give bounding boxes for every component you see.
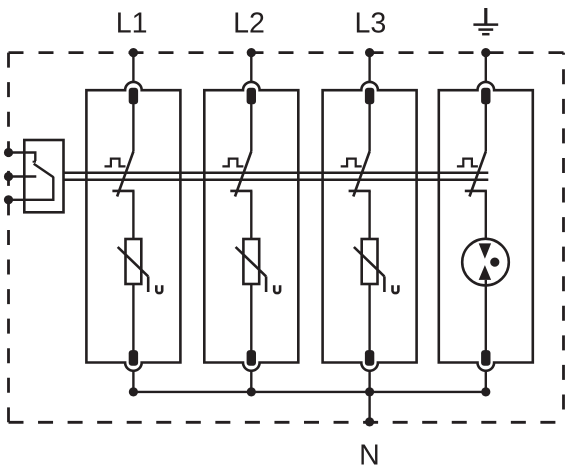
label U of RV2: [274, 285, 280, 293]
wire arc to N junction F2: [250, 371, 252, 392]
wire arc to N junction F3: [368, 371, 370, 392]
wire pill to blade F2: [250, 100, 252, 152]
junction node F1-N: [129, 387, 138, 396]
wire switch to spark gap F4: [485, 191, 487, 244]
node L2: [247, 48, 256, 57]
terminal pill bottom module F3: [365, 350, 374, 366]
N bus wire: [133, 391, 485, 393]
gas indicator dot: [490, 258, 499, 267]
wire pill to blade F3: [368, 100, 370, 152]
contact bar F3: [349, 190, 371, 193]
module F4 box: [439, 82, 533, 371]
spark gap bottom electrode: [479, 265, 491, 280]
terminal pill top module F4: [481, 88, 490, 105]
node L1: [129, 48, 138, 57]
terminal pill bottom module F4: [481, 350, 490, 366]
thermal trip symbol F3: [341, 159, 362, 167]
terminal pill bottom module F1: [129, 350, 138, 366]
remote contact NO wire: [9, 177, 54, 200]
wire pill to blade F4: [485, 100, 487, 152]
remote contact common wire: [9, 175, 37, 177]
varistor RV1: [118, 239, 149, 292]
spark gap top electrode: [479, 243, 491, 258]
terminal pill bottom module F2: [247, 350, 256, 366]
disconnector blade F3: [353, 152, 369, 197]
module F2 box: [204, 82, 298, 371]
wire N drop: [368, 392, 370, 422]
junction node F3-N: [365, 387, 374, 396]
contact bar F2: [230, 190, 252, 193]
wire arc to N junction F1: [132, 371, 134, 392]
varistor RV2: [236, 239, 267, 292]
thermal trip symbol F1: [105, 159, 126, 167]
disconnector blade F1: [117, 152, 133, 197]
wire switch to varistor F1: [132, 191, 134, 240]
module F3 box: [323, 82, 417, 371]
wire spark gap to bottom terminal F4: [485, 280, 487, 365]
wire varistor to bottom terminal F3: [368, 284, 370, 365]
node PE: [481, 48, 490, 57]
varistor RV3: [354, 239, 385, 292]
node remote bottom: [4, 195, 13, 204]
wire L1 down: [132, 53, 134, 83]
remote contact blade: [34, 164, 54, 178]
label U of RV1: [156, 285, 162, 293]
svg-text:L1: L1: [116, 8, 148, 40]
spark gap GDT circle: [462, 239, 509, 286]
wire switch to varistor F2: [250, 191, 252, 240]
contact bar F4: [465, 190, 487, 193]
disconnector blade F2: [235, 152, 251, 197]
mechanical linkage lower line: [64, 179, 489, 182]
wire varistor to bottom terminal F2: [250, 284, 252, 365]
terminal pill top module F1: [129, 88, 138, 105]
node remote middle: [4, 172, 13, 181]
disconnector blade F4: [470, 152, 486, 197]
junction node F2-N: [247, 387, 256, 396]
wire PE down: [485, 53, 487, 83]
terminal pill top module F3: [365, 88, 374, 105]
enclosure dashed border: [9, 53, 564, 423]
wire pill to blade F1: [132, 100, 134, 152]
module F1 box: [86, 82, 180, 371]
label U of RV3: [393, 285, 399, 293]
node remote top: [4, 148, 13, 157]
remote signal contact box: [24, 140, 63, 212]
remote contact fixed tip: [33, 161, 36, 163]
svg-text:L3: L3: [354, 8, 386, 40]
mechanical linkage upper line: [64, 171, 489, 174]
wire L3 down: [368, 53, 370, 83]
terminal pill top module F2: [247, 88, 256, 105]
remote contact NC wire: [9, 153, 36, 162]
wire varistor to bottom terminal F1: [132, 284, 134, 365]
node L3: [365, 48, 374, 57]
wire L2 down: [250, 53, 252, 83]
svg-text:L2: L2: [233, 8, 265, 40]
svg-text:N: N: [359, 439, 380, 470]
junction node F4-N: [481, 387, 490, 396]
wire switch to varistor F3: [368, 191, 370, 240]
contact bar F1: [112, 190, 134, 193]
wire arc to N junction F4: [485, 371, 487, 392]
earth symbol: [473, 8, 498, 34]
thermal trip symbol F2: [222, 159, 243, 167]
thermal trip symbol F4: [457, 159, 478, 167]
node N terminal: [365, 417, 374, 426]
